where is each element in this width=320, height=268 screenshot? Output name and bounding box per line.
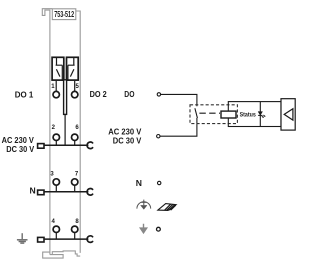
svg-text:3: 3 (50, 172, 54, 178)
pin 7 terminal (72, 179, 78, 185)
label box 753-512 (52, 9, 76, 20)
node N terminal (158, 181, 161, 184)
relay actuator bar (64, 80, 67, 115)
svg-text:4: 4 (52, 219, 56, 225)
clamp terminal row 3 (38, 190, 44, 195)
supply rail L (pins 2/6) (44, 144, 88, 146)
wire: pin 3 stub (55, 185, 57, 192)
svg-text:N: N (136, 178, 142, 188)
pin 1 terminal (53, 91, 59, 97)
module outline right edge (76, 11, 80, 253)
relay contact box K2 (DO2) (67, 57, 79, 81)
earth-over-rail icon (137, 200, 151, 210)
wire: K2 to pin 5 (74, 81, 76, 91)
switch S (relay contact, open) (195, 108, 198, 118)
wire: DO terminal to switch (161, 94, 197, 106)
pin 3 terminal (53, 179, 59, 185)
socket symbol row 4 (87, 236, 93, 243)
socket symbol row 2 (87, 142, 93, 149)
ground symbol (left, earth) (17, 233, 28, 243)
wire: pin 4 stub (55, 232, 57, 239)
svg-text:753-512: 753-512 (54, 10, 74, 19)
wire: actuator to supply rail (64, 114, 66, 145)
svg-text:2: 2 (52, 125, 56, 131)
wire: pin 2 stub (55, 140, 57, 145)
status box (228, 102, 281, 127)
socket symbol row 3 (87, 189, 93, 196)
svg-text:DC 30 V: DC 30 V (6, 144, 34, 154)
node DO terminal (157, 93, 160, 96)
wire: L terminal up to switch (160, 118, 197, 136)
wire: pin 8 stub (74, 232, 76, 239)
clamp terminal row 2 (38, 144, 44, 149)
clamp terminal row 4 (38, 237, 44, 242)
pin 8 terminal (72, 226, 78, 232)
dashed enclosure (relay) (190, 105, 237, 124)
earth rail PE (pins 4/8) (44, 238, 88, 240)
LED triangle indicator (284, 109, 293, 120)
pin 4 terminal (53, 226, 59, 232)
pin 6 terminal (72, 134, 78, 140)
svg-text:Status: Status (240, 111, 256, 118)
node L supply terminal (157, 135, 160, 138)
svg-text:DO: DO (124, 89, 134, 99)
wire: pin 7 stub (74, 185, 76, 192)
node PE terminal (157, 227, 161, 231)
module outline left edge with DIN hook (42, 9, 52, 255)
operating tool icon (158, 204, 176, 211)
svg-text:N: N (30, 185, 36, 195)
svg-text:7: 7 (75, 172, 79, 178)
pin 5 terminal (72, 91, 78, 97)
svg-text:5: 5 (76, 84, 80, 90)
power-flow arrow down (gray) (140, 224, 146, 233)
neutral rail N (pins 3/7) (44, 191, 88, 193)
LED indicator on divider (258, 112, 265, 118)
svg-text:6: 6 (75, 125, 79, 131)
pin 2 terminal (53, 134, 59, 140)
relay coil element (221, 111, 236, 118)
svg-text:1: 1 (51, 84, 55, 90)
module DIN-rail foot (43, 251, 80, 258)
status box divider (259, 102, 261, 127)
LED display box (281, 99, 295, 130)
wire: pin 6 stub (74, 140, 76, 145)
relay contact box K1 (DO1) (52, 57, 64, 81)
svg-text:8: 8 (75, 219, 79, 225)
wire: K1 to pin 1 (55, 81, 57, 91)
svg-text:DO 1: DO 1 (15, 90, 34, 100)
svg-text:DO 2: DO 2 (90, 89, 107, 99)
svg-text:DC 30 V: DC 30 V (113, 136, 142, 146)
actuation link (dash-dot) (199, 112, 220, 114)
